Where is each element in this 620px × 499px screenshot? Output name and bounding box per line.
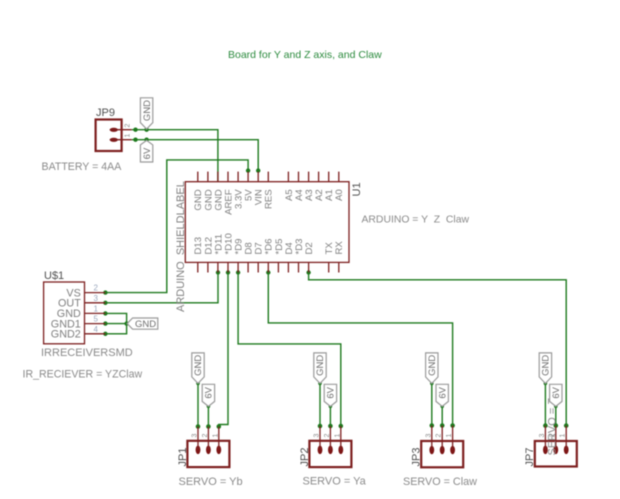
svg-text:U$1: U$1 xyxy=(44,270,64,282)
supply flag 6V at JP7 xyxy=(550,384,562,406)
wire JP7 6V flag to pin2 xyxy=(555,406,557,425)
U$1 pin names xyxy=(51,287,81,340)
svg-text:A0: A0 xyxy=(334,189,345,201)
op U1 arduino shield box xyxy=(185,182,349,263)
wire D2 to JP7 pin1 xyxy=(309,273,567,426)
U$1 pin numbers xyxy=(94,284,99,334)
svg-text:IRRECEIVERSMD: IRRECEIVERSMD xyxy=(41,347,133,359)
supply flag GND at JP3 xyxy=(426,353,438,384)
svg-text:1: 1 xyxy=(212,434,219,438)
wire 6V net: JP9 pin1 to U1 VIN xyxy=(132,140,259,171)
junction JP7 pins xyxy=(543,423,548,428)
supply flag GND at JP1 xyxy=(192,353,204,384)
svg-text:1: 1 xyxy=(446,434,453,438)
svg-text:3: 3 xyxy=(94,294,99,303)
wire JP1 GND flag to pin3 xyxy=(197,383,199,426)
svg-text:SERVO = Yb: SERVO = Yb xyxy=(179,476,243,488)
wire JP2 6V flag to pin2 xyxy=(329,406,331,426)
wire GND net: JP9 pin2 to U1 GND pin3 xyxy=(132,130,218,181)
svg-text:6V: 6V xyxy=(204,386,215,398)
svg-text:JP7: JP7 xyxy=(524,448,536,467)
junction JP3 pins xyxy=(430,423,435,428)
wire 5V net: U1 5V to U$1 VS xyxy=(105,160,248,293)
svg-text:GND: GND xyxy=(193,355,204,376)
svg-text:JP3: JP3 xyxy=(411,448,423,467)
svg-text:SERVO = Ya: SERVO = Ya xyxy=(303,476,367,488)
supply flag GND at JP2 xyxy=(314,353,326,384)
svg-text:GND2: GND2 xyxy=(51,329,81,341)
svg-text:BATTERY = 4AA: BATTERY = 4AA xyxy=(42,161,123,173)
junction JP1 flag tips xyxy=(196,382,200,386)
wire GND bus at U$1 pins 1,5,4 xyxy=(105,313,127,333)
wire JP3 GND flag to pin3 xyxy=(431,383,433,425)
svg-text:6V: 6V xyxy=(326,386,337,398)
svg-text:4: 4 xyxy=(94,325,99,334)
JP7 pin numbers xyxy=(539,434,567,438)
svg-text:GND: GND xyxy=(135,319,156,330)
svg-text:2: 2 xyxy=(324,434,331,438)
svg-text:GND: GND xyxy=(315,355,326,376)
svg-text:JP9: JP9 xyxy=(96,107,115,119)
svg-text:6V: 6V xyxy=(551,386,562,398)
supply flag GND at JP9 xyxy=(140,98,152,129)
U1 bottom pin stubs xyxy=(198,262,339,272)
svg-text:2: 2 xyxy=(436,434,443,438)
JP1 pin numbers xyxy=(192,434,220,438)
svg-text:2: 2 xyxy=(202,434,209,438)
supply flag 6V at JP9 xyxy=(140,140,152,162)
svg-text:6V: 6V xyxy=(437,386,448,398)
junction JP2 flag tips xyxy=(318,382,322,386)
JP2 pin numbers xyxy=(314,434,342,438)
JP7 pads xyxy=(543,446,569,455)
junction U$1 pin ends xyxy=(103,290,107,294)
svg-text:2: 2 xyxy=(94,284,99,293)
svg-text:1: 1 xyxy=(334,434,341,438)
svg-text:IR_RECIEVER = YZClaw: IR_RECIEVER = YZClaw xyxy=(23,369,143,381)
junction U$1 GND flag xyxy=(124,321,128,325)
wire JP7 GND flag to pin3 xyxy=(544,383,546,425)
JP1 pin stubs xyxy=(198,427,219,450)
JP1 pads xyxy=(196,446,222,455)
connector JP2 box xyxy=(309,441,351,467)
JP9 pin stubs xyxy=(110,130,132,140)
svg-text:RES: RES xyxy=(264,189,275,209)
junction U1 VIN pin xyxy=(256,168,260,172)
wire *D10 to JP1 pin1 xyxy=(219,273,228,427)
U1 bottom pin names xyxy=(193,233,345,254)
U$1 pin stubs xyxy=(85,293,106,334)
JP9 pads xyxy=(110,128,118,142)
svg-text:JP2: JP2 xyxy=(299,448,311,467)
wire *D9 to JP2 pin1 xyxy=(238,273,341,427)
junction U1 bottom pins xyxy=(216,270,220,274)
svg-text:3: 3 xyxy=(539,434,546,438)
svg-text:1: 1 xyxy=(560,434,567,438)
svg-text:5: 5 xyxy=(94,315,99,324)
svg-text:GND: GND xyxy=(427,355,438,376)
connector JP1 box xyxy=(187,441,229,467)
svg-text:1: 1 xyxy=(125,134,132,138)
svg-text:Board for Y and Z axis, and Cl: Board for Y and Z axis, and Claw xyxy=(228,49,382,61)
supply flag 6V at JP3 xyxy=(436,384,448,406)
svg-text:RX: RX xyxy=(334,241,345,255)
svg-text:3: 3 xyxy=(425,434,432,438)
connector JP9 box xyxy=(96,120,122,152)
svg-text:ARDUINO SHIELDLABEL: ARDUINO SHIELDLABEL xyxy=(175,181,187,312)
wire OUT net: U$1 OUT to U1 *D11 xyxy=(105,273,218,303)
svg-text:3: 3 xyxy=(192,434,199,438)
JP3 pin stubs xyxy=(432,426,453,451)
svg-text:6V: 6V xyxy=(142,147,153,159)
svg-text:GND: GND xyxy=(541,355,552,376)
wire JP2 GND flag to pin3 xyxy=(319,383,321,426)
JP9 pin numbers xyxy=(125,124,132,138)
svg-text:JP1: JP1 xyxy=(177,448,189,467)
junction JP7 flag tips xyxy=(544,382,548,386)
JP3 pads xyxy=(429,446,455,455)
supply flag 6V at JP1 xyxy=(202,384,214,406)
JP2 pads xyxy=(318,446,344,455)
JP3 pin numbers xyxy=(425,434,453,438)
supply flag GND at U$1 xyxy=(127,318,158,330)
IC U$1 IR receiver box xyxy=(44,282,85,344)
junction JP1 pins xyxy=(196,424,201,429)
connector JP3 box xyxy=(421,441,463,467)
connector JP7 box xyxy=(535,441,577,467)
wire JP3 6V flag to pin2 xyxy=(441,406,443,425)
U1 top pin names xyxy=(193,189,345,215)
junction JP9 6V wire xyxy=(133,138,137,142)
svg-text:3: 3 xyxy=(314,434,321,438)
svg-text:SERVO = Claw: SERVO = Claw xyxy=(403,476,477,488)
junction U1 5V pin xyxy=(246,168,250,172)
U1 top pin stubs xyxy=(198,172,339,182)
svg-text:GND: GND xyxy=(142,100,153,121)
supply flag 6V at JP2 xyxy=(324,384,336,406)
svg-text:U1: U1 xyxy=(351,182,363,196)
wire JP1 6V flag to pin2 xyxy=(207,406,209,426)
junction JP9 GND wire xyxy=(133,128,137,132)
junction JP2 pins xyxy=(318,424,323,429)
supply flag GND at JP7 xyxy=(539,353,551,384)
svg-text:D2: D2 xyxy=(304,242,315,254)
svg-text:ARDUINO = Y Z Claw: ARDUINO = Y Z Claw xyxy=(362,214,470,225)
junction JP3 flag tips xyxy=(430,382,434,386)
JP7 pin stubs xyxy=(545,426,566,450)
svg-text:1: 1 xyxy=(94,304,99,313)
svg-text:2: 2 xyxy=(125,124,132,128)
JP2 pin stubs xyxy=(320,426,341,450)
wire *D6 to JP3 pin1 xyxy=(268,273,452,426)
